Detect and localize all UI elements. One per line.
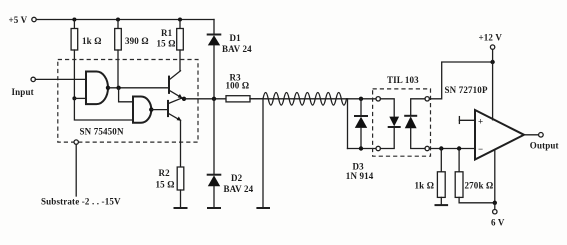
svg-text:Output: Output <box>530 140 559 150</box>
terminal substrate <box>74 140 78 144</box>
photodiode in TIL103 <box>405 99 425 149</box>
gate G1 <box>86 72 108 105</box>
svg-text:1N 914: 1N 914 <box>346 171 374 181</box>
node 6V junction <box>493 201 497 205</box>
node 270k <box>457 146 461 150</box>
node Q1e-Q2c <box>182 97 186 101</box>
wire op-amp output <box>524 134 539 136</box>
svg-text:D1: D1 <box>230 33 242 43</box>
svg-text:15 Ω: 15 Ω <box>156 180 175 190</box>
optocoupler TIL 103 dashed box <box>373 89 431 156</box>
svg-text:BAV 24: BAV 24 <box>224 184 254 194</box>
wire input to G1 <box>35 78 86 80</box>
wire G1 output to Q1 base <box>108 87 169 89</box>
resistor R2 <box>177 167 184 208</box>
svg-text:1k Ω: 1k Ω <box>415 181 435 191</box>
svg-text:390 Ω: 390 Ω <box>125 36 149 46</box>
node G1 output <box>106 86 110 90</box>
svg-text:15 Ω: 15 Ω <box>157 39 176 49</box>
resistor R3 <box>226 96 263 102</box>
svg-text:+12 V: +12 V <box>479 33 503 43</box>
wire G2 output to Q2 base <box>151 109 168 111</box>
diode D2 <box>208 99 221 208</box>
diode D3 <box>355 99 367 149</box>
node D3 bottom <box>359 146 363 150</box>
svg-text:R2: R2 <box>159 168 171 178</box>
wire +12V terminal <box>492 49 494 62</box>
svg-text:Input: Input <box>12 87 34 97</box>
node D1-D2-R3 <box>212 97 216 101</box>
svg-text:+5 V: +5 V <box>9 15 28 25</box>
terminal Input <box>31 77 35 81</box>
wire 1k to G2 input <box>74 98 133 120</box>
wire driver output to R3 node <box>184 98 226 100</box>
svg-text:BAV 24: BAV 24 <box>222 44 252 54</box>
svg-text:R1: R1 <box>161 28 173 38</box>
LED in TIL103 <box>380 99 399 149</box>
terminal TIL bottom-right <box>425 146 429 150</box>
wire to 6V terminal <box>494 203 496 210</box>
node rail-R1 <box>178 18 182 22</box>
node rail-390 <box>116 18 120 22</box>
wire bottom line to TIL <box>348 148 377 150</box>
wire +5V rail <box>36 19 214 21</box>
wire minus input <box>429 148 475 150</box>
svg-text:+: + <box>478 117 483 127</box>
wire substrate <box>75 144 77 196</box>
resistor 390 <box>115 20 122 89</box>
terminal +5 V <box>32 17 36 21</box>
plus input reference stub <box>459 117 475 124</box>
terminal TIL top-left <box>376 97 380 101</box>
wire G1 output to G2 input <box>119 88 133 102</box>
wire twisted-pair right leg <box>347 99 349 149</box>
wire twisted-pair left leg <box>262 99 264 208</box>
wire op-amp V- <box>494 150 496 203</box>
node 1k-right <box>439 146 443 150</box>
svg-text:SN 72710P: SN 72710P <box>445 85 488 95</box>
ground twisted pair <box>257 207 269 209</box>
svg-text:−: − <box>478 144 483 154</box>
svg-text:D2: D2 <box>231 173 243 183</box>
node G1out-390 <box>116 86 120 90</box>
node G1 lower input <box>72 96 76 100</box>
wire TIL top to +12V <box>429 62 492 99</box>
node rail-1k <box>72 18 76 22</box>
diode D1 <box>208 20 221 99</box>
resistor R1 <box>177 20 184 71</box>
gate G2 <box>133 97 151 123</box>
transistor Q2 <box>168 98 184 167</box>
twisted pair line (signal wire) <box>250 98 376 100</box>
resistor 270k <box>455 149 495 203</box>
svg-text:D3: D3 <box>353 162 365 172</box>
terminal Output <box>539 133 544 138</box>
transistor Q1 <box>169 71 184 99</box>
svg-text:270k Ω: 270k Ω <box>465 181 494 191</box>
svg-text:Substrate -2 . . -15V: Substrate -2 . . -15V <box>41 197 121 207</box>
terminal 6 V <box>493 210 497 214</box>
IC SN 75450N dashed box <box>58 60 198 143</box>
ground 1k (right) <box>436 204 448 206</box>
twisted pair line (return wire) <box>263 93 347 106</box>
node D3 top <box>359 97 363 101</box>
svg-text:SN 75450N: SN 75450N <box>80 127 124 137</box>
ground R2 <box>175 207 187 209</box>
wire 1k to G1 input <box>74 97 86 99</box>
terminal +12 V <box>490 45 494 49</box>
svg-text:TIL 103: TIL 103 <box>387 75 419 85</box>
wire +12V to op-amp V+ <box>492 62 494 120</box>
node +12V junction <box>490 60 494 64</box>
op-amp U2 SN72710P <box>475 110 524 160</box>
terminal TIL bottom-left <box>376 146 380 150</box>
terminal TIL top-right <box>425 97 429 101</box>
resistor 1k (right) <box>437 149 445 206</box>
resistor 1k <box>71 20 78 99</box>
node G2 output <box>149 107 153 111</box>
svg-text:6 V: 6 V <box>491 218 505 228</box>
svg-text:100 Ω: 100 Ω <box>226 81 250 91</box>
ground D2 <box>208 207 220 209</box>
svg-text:1k Ω: 1k Ω <box>82 36 102 46</box>
